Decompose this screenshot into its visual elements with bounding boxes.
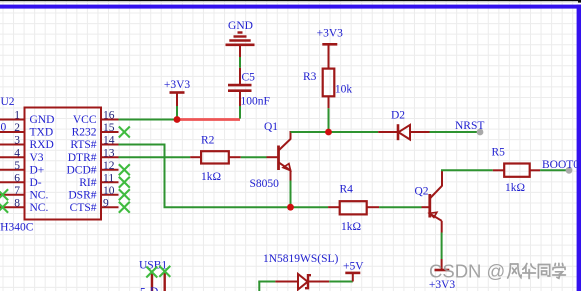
svg-text:0: 0 bbox=[1, 122, 7, 134]
svg-text:15: 15 bbox=[103, 122, 115, 134]
svg-text:1kΩ: 1kΩ bbox=[505, 182, 525, 194]
svg-text:+3V3: +3V3 bbox=[317, 28, 344, 40]
svg-text:14: 14 bbox=[103, 135, 115, 147]
svg-text:D+: D+ bbox=[30, 164, 45, 176]
svg-text:6: 6 bbox=[14, 172, 20, 184]
svg-text:2: 2 bbox=[14, 122, 20, 134]
svg-text:3: 3 bbox=[14, 135, 20, 147]
svg-text:D-: D- bbox=[30, 177, 42, 189]
svg-text:8: 8 bbox=[14, 197, 20, 209]
svg-text:DTR#: DTR# bbox=[68, 152, 97, 164]
svg-text:TXD: TXD bbox=[30, 127, 54, 139]
svg-text:16: 16 bbox=[103, 110, 115, 122]
svg-text:4: 4 bbox=[14, 147, 20, 159]
svg-text:D-: D- bbox=[150, 286, 162, 291]
svg-text:RTS#: RTS# bbox=[70, 139, 96, 151]
svg-text:RI#: RI# bbox=[79, 177, 97, 189]
svg-text:DSR#: DSR# bbox=[68, 189, 96, 201]
svg-text:1kΩ: 1kΩ bbox=[341, 221, 361, 233]
svg-text:D2: D2 bbox=[391, 110, 405, 122]
svg-text:Q2: Q2 bbox=[415, 185, 429, 197]
svg-text:+5V: +5V bbox=[343, 261, 364, 273]
svg-text:10k: 10k bbox=[335, 84, 353, 96]
svg-text:R5: R5 bbox=[492, 147, 506, 159]
svg-text:100nF: 100nF bbox=[241, 96, 270, 108]
svg-text:R3: R3 bbox=[303, 71, 317, 83]
svg-text:7: 7 bbox=[14, 185, 20, 197]
svg-text:CTS#: CTS# bbox=[70, 202, 97, 214]
svg-text:C5: C5 bbox=[242, 72, 256, 84]
svg-text:1kΩ: 1kΩ bbox=[201, 171, 221, 183]
svg-text:11: 11 bbox=[103, 172, 114, 184]
svg-text:GND: GND bbox=[30, 114, 55, 126]
svg-text:5: 5 bbox=[140, 287, 146, 291]
svg-text:9: 9 bbox=[103, 197, 109, 209]
svg-text:DCD#: DCD# bbox=[66, 164, 96, 176]
svg-text:BOOT0: BOOT0 bbox=[542, 159, 579, 171]
svg-text:RXD: RXD bbox=[30, 139, 54, 151]
svg-text:S8050: S8050 bbox=[250, 178, 280, 190]
svg-text:R4: R4 bbox=[340, 184, 354, 196]
svg-text:NC.: NC. bbox=[30, 202, 49, 214]
svg-text:1N5819WS(SL): 1N5819WS(SL) bbox=[263, 253, 339, 265]
svg-text:13: 13 bbox=[103, 147, 115, 159]
svg-text:1: 1 bbox=[14, 110, 20, 122]
svg-text:NRST: NRST bbox=[455, 120, 484, 132]
svg-text:12: 12 bbox=[103, 160, 115, 172]
svg-text:VCC: VCC bbox=[73, 114, 97, 126]
svg-text:NC.: NC. bbox=[30, 189, 49, 201]
svg-text:5: 5 bbox=[14, 160, 20, 172]
svg-text:+3V3: +3V3 bbox=[164, 79, 191, 91]
svg-text:R2: R2 bbox=[201, 135, 215, 147]
svg-text:R232: R232 bbox=[72, 127, 97, 139]
svg-text:V3: V3 bbox=[30, 152, 44, 164]
svg-text:U2: U2 bbox=[1, 96, 15, 108]
svg-text:CH340C: CH340C bbox=[0, 222, 34, 234]
svg-text:GND: GND bbox=[228, 20, 253, 32]
svg-text:+3V3: +3V3 bbox=[429, 279, 456, 291]
svg-text:Q1: Q1 bbox=[264, 121, 278, 133]
svg-text:10: 10 bbox=[103, 185, 115, 197]
